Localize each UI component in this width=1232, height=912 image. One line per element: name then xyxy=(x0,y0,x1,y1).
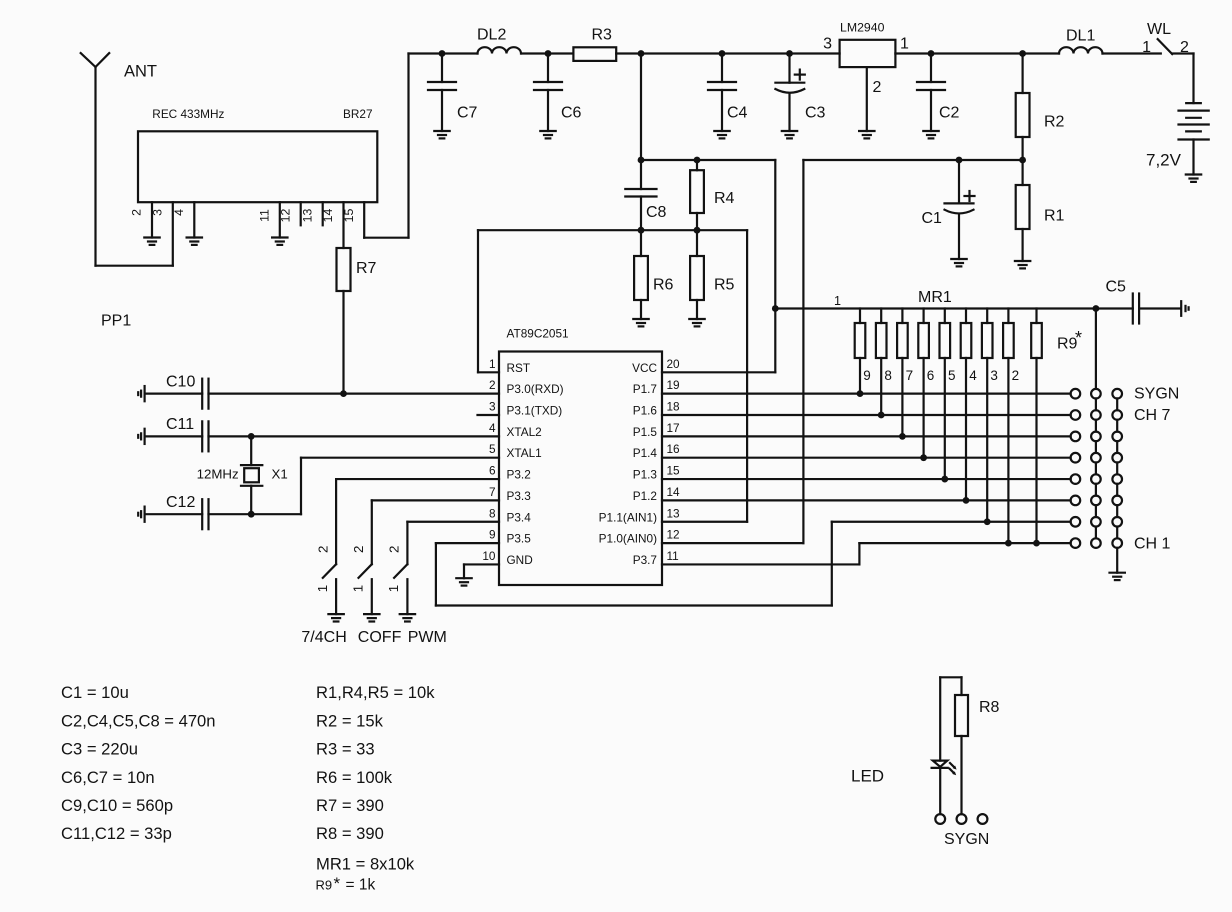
connector pads 3x8 header xyxy=(1071,309,1122,573)
svg-text:GND: GND xyxy=(507,553,533,567)
svg-text:PP1: PP1 xyxy=(101,313,131,330)
wire C10 to P3.0 pin 2 xyxy=(209,393,500,395)
svg-text:CH 7: CH 7 xyxy=(1134,407,1171,424)
svg-text:2: 2 xyxy=(1012,368,1020,383)
svg-text:4: 4 xyxy=(969,368,977,383)
svg-text:9: 9 xyxy=(489,528,496,542)
node junction C7 xyxy=(439,50,446,57)
ground tap left C10 xyxy=(138,386,144,401)
svg-text:COFF: COFF xyxy=(358,629,402,646)
svg-text:C3 = 220u: C3 = 220u xyxy=(61,740,138,759)
svg-text:P3.7: P3.7 xyxy=(633,553,657,567)
svg-text:P3.0(RXD): P3.0(RXD) xyxy=(507,382,564,396)
wire P3.5 to row 7 xyxy=(436,522,832,606)
svg-text:REC 433MHz: REC 433MHz xyxy=(152,107,224,121)
svg-text:3: 3 xyxy=(151,209,165,216)
svg-text:C7: C7 xyxy=(457,104,478,121)
svg-text:11: 11 xyxy=(258,209,272,222)
svg-text:P1.5: P1.5 xyxy=(633,425,658,439)
svg-text:19: 19 xyxy=(667,378,680,392)
svg-text:P1.7: P1.7 xyxy=(633,382,657,396)
svg-text:DL2: DL2 xyxy=(477,27,506,44)
svg-text:4: 4 xyxy=(172,209,186,216)
ground tap left C12 xyxy=(138,507,144,522)
node junction C1 top xyxy=(956,157,963,164)
resistor R1 xyxy=(1016,160,1065,261)
ground xyxy=(1181,301,1188,316)
svg-text:SYGN: SYGN xyxy=(1134,386,1179,403)
wire RST node horizontal xyxy=(478,229,747,231)
antenna ANT xyxy=(81,53,157,266)
svg-text:18: 18 xyxy=(667,400,681,414)
wire row P1.2 xyxy=(662,497,1071,504)
svg-text:RST: RST xyxy=(507,361,531,375)
svg-text:R2: R2 xyxy=(1044,114,1065,131)
switch PWM xyxy=(386,522,499,646)
svg-text:5: 5 xyxy=(489,442,496,456)
svg-text:1: 1 xyxy=(315,585,330,592)
node PP1 xyxy=(101,313,131,330)
svg-text:X1: X1 xyxy=(272,467,288,482)
svg-text:7,2V: 7,2V xyxy=(1146,151,1182,170)
svg-text:1: 1 xyxy=(351,585,366,592)
svg-text:C2,C4,C5,C8 = 470n: C2,C4,C5,C8 = 470n xyxy=(61,711,216,730)
svg-text:WL: WL xyxy=(1147,21,1171,38)
svg-text:C6: C6 xyxy=(561,105,582,122)
svg-text:C4: C4 xyxy=(727,105,748,122)
wire P1.1 to R4/R5 node xyxy=(662,230,747,522)
switch 7/4CH xyxy=(301,479,499,646)
resistor network MR1 xyxy=(855,289,1019,543)
pin 13 of BR27 xyxy=(300,202,322,225)
svg-text:P3.2: P3.2 xyxy=(507,468,531,482)
node junction C4 xyxy=(719,50,726,57)
wire node to VCC riser xyxy=(641,160,775,309)
svg-text:2: 2 xyxy=(387,546,402,553)
svg-text:P1.3: P1.3 xyxy=(633,468,658,482)
capacitor C11 xyxy=(145,416,209,451)
ground xyxy=(272,238,287,245)
svg-text:DL1: DL1 xyxy=(1066,27,1095,44)
svg-text:R6: R6 xyxy=(653,277,674,294)
svg-text:10: 10 xyxy=(482,549,496,563)
svg-text:P1.4: P1.4 xyxy=(633,446,658,460)
svg-text:R4: R4 xyxy=(714,190,735,207)
svg-text:*: * xyxy=(1075,328,1082,348)
ground xyxy=(456,578,471,585)
svg-text:R8: R8 xyxy=(979,699,1000,716)
inductor DL1 xyxy=(895,27,1160,53)
svg-text:C2: C2 xyxy=(939,105,960,122)
svg-text:AT89C2051: AT89C2051 xyxy=(507,327,569,341)
svg-text:C12: C12 xyxy=(166,494,195,511)
wire +5V MR1 rail xyxy=(775,307,1180,309)
svg-text:1: 1 xyxy=(489,357,496,371)
pin 14 of BR27 xyxy=(321,202,343,248)
svg-text:P3.3: P3.3 xyxy=(507,489,532,503)
svg-text:XTAL2: XTAL2 xyxy=(507,425,542,439)
svg-text:14: 14 xyxy=(667,485,681,499)
voltage regulator LM2940 xyxy=(823,21,909,67)
svg-text:CH 1: CH 1 xyxy=(1134,535,1171,552)
ground tap left C11 xyxy=(138,429,144,444)
svg-text:16: 16 xyxy=(667,442,681,456)
svg-text:R3 = 33: R3 = 33 xyxy=(316,740,375,759)
switch WL xyxy=(1142,21,1193,56)
wire row CH1 from P3.7 xyxy=(859,540,1070,547)
svg-text:17: 17 xyxy=(667,421,680,435)
wire P3.7 to CH1 row xyxy=(662,543,859,564)
svg-text:C8: C8 xyxy=(646,204,667,221)
wire row P1.6 xyxy=(662,412,1071,419)
wire C11 to XTAL2 pin 4 xyxy=(209,433,500,440)
ground xyxy=(1015,261,1030,268)
capacitor C3 electrolytic xyxy=(775,54,825,132)
svg-text:P1.0(AIN0): P1.0(AIN0) xyxy=(599,532,657,546)
svg-text:11: 11 xyxy=(667,549,679,563)
svg-text:12MHz: 12MHz xyxy=(197,467,239,482)
node junction R4 top xyxy=(694,157,701,164)
wire P1.0 to battery divider xyxy=(662,160,803,543)
LED D1 xyxy=(851,761,957,815)
svg-text:1: 1 xyxy=(900,35,909,52)
resistor R6 xyxy=(634,230,673,319)
wire +5V top rail xyxy=(409,52,840,54)
svg-text:ANT: ANT xyxy=(124,62,157,80)
svg-text:2: 2 xyxy=(315,546,330,553)
svg-text:R1,R4,R5 = 10k: R1,R4,R5 = 10k xyxy=(316,683,435,702)
wire R7 to P3.0 line xyxy=(340,291,347,397)
svg-text:XTAL1: XTAL1 xyxy=(507,446,542,460)
svg-text:C3: C3 xyxy=(805,105,826,122)
wire BR27 pin15 to +5V rail xyxy=(364,54,408,238)
capacitor C2 xyxy=(917,54,960,139)
switch COFF xyxy=(351,500,500,646)
pin 3 of BR27 xyxy=(151,209,165,216)
wire row SYGN P1.7 xyxy=(662,390,1071,397)
svg-text:12: 12 xyxy=(278,209,292,223)
svg-text:5: 5 xyxy=(948,368,956,383)
svg-text:2: 2 xyxy=(351,546,366,553)
svg-text:6: 6 xyxy=(927,368,935,383)
ground xyxy=(689,319,704,326)
node junction VCC rail xyxy=(772,305,779,312)
svg-text:P1.1(AIN1): P1.1(AIN1) xyxy=(599,510,657,524)
battery 7,2V xyxy=(1146,54,1209,175)
resistor R4 xyxy=(690,160,734,230)
svg-text:R2 = 15k: R2 = 15k xyxy=(316,711,384,730)
receiver module BR27 REC 433MHz xyxy=(138,107,377,202)
svg-text:BR27: BR27 xyxy=(343,107,373,121)
svg-text:*: * xyxy=(334,874,341,893)
svg-text:R8 = 390: R8 = 390 xyxy=(316,824,384,843)
svg-text:3: 3 xyxy=(990,368,998,383)
capacitor C1 electrolytic xyxy=(922,160,975,259)
svg-text:3: 3 xyxy=(823,35,832,52)
svg-text:R1: R1 xyxy=(1044,208,1065,225)
crystal X1 12MHz xyxy=(197,436,288,514)
capacitor C4 xyxy=(708,54,748,139)
svg-text:15: 15 xyxy=(342,209,356,223)
svg-text:P1.2: P1.2 xyxy=(633,489,657,503)
wire row 7 from P3.5 xyxy=(832,518,1071,525)
resistor R9 xyxy=(1031,309,1082,544)
pin 4 of BR27 xyxy=(172,202,194,237)
svg-text:R7 = 390: R7 = 390 xyxy=(316,796,384,815)
wire pin 3 stub xyxy=(478,414,500,416)
svg-text:8: 8 xyxy=(489,506,496,520)
svg-text:1: 1 xyxy=(386,585,401,592)
svg-text:2: 2 xyxy=(1180,39,1189,56)
wire VCC pin 20 riser xyxy=(662,309,775,373)
node junction R4 bottom xyxy=(694,227,701,234)
svg-text:C9,C10 = 560p: C9,C10 = 560p xyxy=(61,796,173,815)
ground xyxy=(782,131,797,138)
svg-text:C11,C12 = 33p: C11,C12 = 33p xyxy=(61,824,172,843)
ground xyxy=(951,259,966,266)
ground xyxy=(859,131,874,138)
svg-text:15: 15 xyxy=(667,464,681,478)
svg-text:9: 9 xyxy=(863,368,871,383)
ground xyxy=(144,238,159,245)
svg-text:R6 = 100k: R6 = 100k xyxy=(316,768,393,787)
svg-text:R5: R5 xyxy=(714,277,735,294)
svg-text:C11: C11 xyxy=(166,416,194,433)
svg-text:7: 7 xyxy=(489,485,496,499)
svg-text:LM2940: LM2940 xyxy=(840,21,885,35)
pin 2 of LM2940 xyxy=(867,67,882,131)
svg-text:P3.4: P3.4 xyxy=(507,510,532,524)
svg-text:LED: LED xyxy=(851,767,884,786)
svg-text:MR1 = 8x10k: MR1 = 8x10k xyxy=(316,855,415,874)
svg-text:12: 12 xyxy=(667,528,680,542)
svg-text:PWM: PWM xyxy=(408,629,447,646)
node main junction after R3 xyxy=(638,50,645,57)
capacitor C12 xyxy=(145,494,209,529)
svg-text:C10: C10 xyxy=(166,374,195,391)
ground xyxy=(1110,573,1125,580)
capacitor C6 xyxy=(534,54,582,139)
svg-text:1: 1 xyxy=(1142,39,1151,56)
svg-text:13: 13 xyxy=(667,506,681,520)
svg-text:13: 13 xyxy=(300,209,314,223)
svg-text:20: 20 xyxy=(667,357,681,371)
svg-text:SYGN: SYGN xyxy=(944,831,989,848)
svg-text:14: 14 xyxy=(321,209,335,223)
node junction C5 xyxy=(1093,305,1100,312)
svg-text:6: 6 xyxy=(489,464,496,478)
svg-text:3: 3 xyxy=(489,400,496,414)
pin 15 of BR27 xyxy=(342,202,364,238)
svg-text:R3: R3 xyxy=(592,27,613,44)
wire row P1.4 xyxy=(662,454,1071,461)
wire R8/LED top bracket xyxy=(940,677,961,760)
svg-text:C1 = 10u: C1 = 10u xyxy=(61,683,129,702)
svg-text:C5: C5 xyxy=(1106,279,1127,296)
node junction C6 xyxy=(545,50,552,57)
wire antenna to BR27 pin 3 xyxy=(96,202,173,266)
ground xyxy=(633,319,648,326)
svg-text:2: 2 xyxy=(130,209,144,216)
capacitor C8 xyxy=(625,189,666,230)
capacitor C10 xyxy=(145,374,209,409)
ground xyxy=(187,238,202,245)
svg-text:2: 2 xyxy=(489,378,496,392)
ground xyxy=(364,614,379,621)
legend capacitor values xyxy=(61,683,216,843)
pin 12 of BR27 xyxy=(278,202,300,225)
svg-text:1: 1 xyxy=(834,294,841,308)
resistor R2 xyxy=(1016,54,1065,161)
svg-text:R7: R7 xyxy=(356,260,377,277)
connector pads SYGN plug xyxy=(935,814,987,824)
pin 11 of BR27 xyxy=(258,202,280,237)
capacitor C7 xyxy=(428,54,478,139)
wire row P1.5 xyxy=(662,433,1071,440)
ground xyxy=(1186,175,1201,182)
svg-text:MR1: MR1 xyxy=(918,289,952,306)
node junction C2 xyxy=(928,50,935,57)
svg-text:7/4CH: 7/4CH xyxy=(301,629,346,646)
node junction R2 top xyxy=(1019,50,1026,57)
svg-text:P3.5: P3.5 xyxy=(507,532,532,546)
svg-text:P3.1(TXD): P3.1(TXD) xyxy=(507,404,563,418)
wire main vertical node to C8 xyxy=(640,54,642,190)
svg-text:4: 4 xyxy=(489,421,496,435)
svg-text:P1.6: P1.6 xyxy=(633,404,658,418)
resistor R7 xyxy=(337,248,377,291)
IC U1 AT89C2051 xyxy=(482,327,680,585)
svg-text:VCC: VCC xyxy=(632,361,657,375)
ground xyxy=(328,614,343,621)
ground xyxy=(400,614,415,621)
node junction y160 left xyxy=(638,157,645,164)
inductor DL2 xyxy=(477,27,521,54)
wire RST riser to pin 1 xyxy=(478,230,499,372)
node junction R2/R1 xyxy=(1019,157,1026,164)
svg-text:R9: R9 xyxy=(316,877,333,892)
svg-text:2: 2 xyxy=(873,79,882,96)
svg-text:C1: C1 xyxy=(922,210,943,227)
svg-text:= 1k: = 1k xyxy=(346,876,376,893)
wire row P1.3 xyxy=(662,476,1071,483)
wire GND pin 10 xyxy=(464,564,499,578)
capacitor C5 xyxy=(1106,279,1140,324)
node junction C3 xyxy=(786,50,793,57)
resistor R3 xyxy=(573,27,616,61)
wire battery divider rail y160 xyxy=(803,159,1022,161)
legend resistor values xyxy=(316,683,436,893)
node junction C8 bottom xyxy=(638,227,645,234)
pin 2 of BR27 xyxy=(130,202,152,237)
svg-text:8: 8 xyxy=(884,368,892,383)
resistor R8 xyxy=(955,695,1000,814)
svg-text:7: 7 xyxy=(906,368,914,383)
svg-text:C6,C7 = 10n: C6,C7 = 10n xyxy=(61,768,155,787)
resistor R5 xyxy=(690,230,734,319)
wire C12 to XTAL1 pin 5 xyxy=(209,458,500,518)
